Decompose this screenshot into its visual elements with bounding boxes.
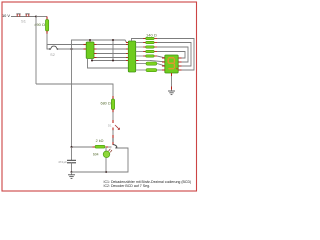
- svg-text:474 µF: 474 µF: [58, 160, 67, 164]
- wire IC1 out A: [94, 44, 129, 46]
- junction node C: [70, 146, 72, 148]
- wire vcc drop to net: [112, 40, 114, 61]
- display right pin ticks: [178, 57, 181, 59]
- wire loop c: [157, 47, 188, 62]
- svg-text:604: 604: [93, 153, 99, 157]
- wire loop d: [157, 52, 185, 59]
- node A junction: [35, 15, 37, 17]
- wire lower rail: [36, 84, 113, 98]
- wire IC2 top pin to resistor Ra: [132, 39, 146, 42]
- pin tick IC2 left row7: [126, 67, 129, 69]
- resistor R4: [136, 50, 157, 52]
- wire diode to transistor: [112, 130, 114, 136]
- wire IC1 lower-left pin under-route: [88, 59, 129, 69]
- wire S2 to IC1 pin: [58, 48, 87, 50]
- transistor Q1: [113, 135, 117, 149]
- wire node A down: [35, 17, 37, 85]
- svg-text:140 Ω: 140 Ω: [146, 33, 157, 38]
- 7-segment display U3: [162, 55, 182, 73]
- display left pin ticks: [162, 57, 165, 59]
- wire R9 to diode: [112, 112, 114, 121]
- svg-text:IC2: Decoder BCD auf 7 Seg.: IC2: Decoder BCD auf 7 Seg.: [104, 184, 151, 188]
- wire emitter to bottom rail: [106, 148, 128, 172]
- wire node A to resistor R1: [36, 16, 47, 18]
- wire node B down left branch: [71, 49, 73, 147]
- junction ground node: [71, 171, 73, 173]
- svg-text:2 kΩ: 2 kΩ: [96, 139, 104, 143]
- caption text: [104, 180, 192, 188]
- svg-text:10 V: 10 V: [2, 13, 10, 18]
- svg-text:D1: D1: [108, 124, 112, 128]
- junction: [91, 60, 93, 62]
- svg-text:S1: S1: [21, 19, 27, 24]
- ground display: [168, 91, 175, 95]
- IC2: [128, 41, 135, 72]
- wire R5 to display: [157, 56, 165, 58]
- wire loop b: [157, 43, 191, 67]
- resistor R9 680 ohm: [100, 96, 114, 113]
- capacitor C1 474uF: [58, 147, 76, 172]
- wire IC1 out C: [94, 53, 129, 55]
- wire ground rail: [72, 171, 107, 173]
- svg-text:680 Ω: 680 Ω: [100, 101, 110, 105]
- resistor R3: [136, 46, 157, 48]
- resistor R8: [136, 69, 162, 72]
- resistor R10 2 kohm: [72, 139, 112, 148]
- wire IC1 out B: [94, 48, 129, 50]
- resistor Ra 140 ohm: [143, 37, 157, 39]
- resistor R7: [136, 62, 165, 66]
- resistor R1 490 ohm: [34, 17, 48, 35]
- pin tick IC1 left pin2: [84, 48, 87, 50]
- junction: [112, 60, 114, 62]
- wire IC1 out D: [94, 57, 129, 59]
- wire IC2 pin row to display: [136, 61, 165, 62]
- pushbutton S1: [16, 14, 29, 24]
- border frame: [2, 2, 197, 191]
- diode D1: [108, 120, 120, 131]
- wire R1 down and to S2: [47, 34, 50, 50]
- wire vcc rail riser: [72, 40, 129, 49]
- junction: [105, 171, 107, 173]
- ground left: [68, 172, 75, 178]
- node B junction: [70, 48, 72, 50]
- wire display common to ground: [171, 73, 173, 91]
- LED D2: [93, 147, 112, 172]
- resistor R5: [136, 55, 157, 57]
- svg-text:S2: S2: [50, 53, 55, 57]
- junction: [112, 39, 114, 41]
- wire IC1 bottom pin to net: [92, 59, 129, 61]
- resistor R2: [136, 41, 157, 43]
- pin tick IC1 left pin1: [84, 44, 87, 46]
- wire upper line resistor to IC1 pin1: [47, 44, 87, 46]
- wire loop a: [157, 39, 194, 71]
- wire 10V rail: [11, 16, 36, 18]
- IC1: [86, 39, 94, 59]
- pin tick IC2 left row6: [126, 60, 129, 62]
- pushbutton S2: [49, 46, 58, 57]
